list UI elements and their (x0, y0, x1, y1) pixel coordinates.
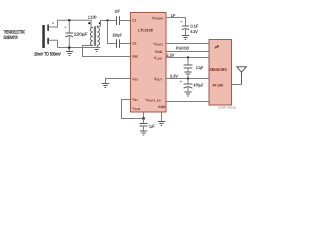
svg-text:VOUT2: VOUT2 (153, 42, 163, 47)
svg-text:1F: 1F (171, 14, 177, 18)
svg-text:LTC3108: LTC3108 (138, 28, 153, 32)
transformer phasing dots (88, 22, 90, 24)
svg-text:PGOOD: PGOOD (176, 45, 189, 50)
wire secondary top rail (101, 21, 117, 27)
svg-text:SW: SW (132, 55, 138, 59)
wire VS1 to VAUX node (122, 100, 144, 119)
op IC U1 LTC3108 (131, 13, 167, 113)
svg-text:C2: C2 (132, 42, 136, 46)
svg-text:220µF: 220µF (74, 31, 88, 36)
wire VSTORE (166, 17, 186, 19)
ground at 470uF (184, 92, 191, 96)
svg-text:1:100: 1:100 (88, 14, 97, 19)
wire VOUT2_EN to uP (166, 101, 209, 103)
svg-text:330pF: 330pF (113, 33, 123, 38)
antenna (237, 67, 246, 85)
node junction 3.3V (187, 77, 189, 79)
svg-text:RF LINK: RF LINK (213, 83, 224, 87)
ground at 1uF (140, 131, 147, 135)
wire VLDO 2.2V to uP (166, 57, 209, 59)
svg-text:VOUT2_EN: VOUT2_EN (146, 98, 161, 103)
node junction VAUX (142, 117, 145, 120)
svg-text:1µF: 1µF (149, 123, 155, 128)
capacitor 0.1F storage (180, 18, 199, 36)
wire RF to antenna (232, 84, 242, 86)
svg-text:470µF: 470µF (194, 83, 204, 88)
node junction 2.2V (187, 56, 189, 58)
wire GND pin to ground (161, 112, 163, 122)
svg-text:VAUX: VAUX (132, 106, 140, 111)
ground under transformer (95, 50, 99, 52)
svg-text:+: + (52, 21, 55, 26)
svg-text:1nF: 1nF (115, 9, 121, 14)
svg-text:6.3V: 6.3V (191, 29, 198, 34)
wire primary bottom to SW pin (83, 46, 131, 57)
wire VOUT2 to uP (166, 43, 209, 45)
capacitor 2.2uF (184, 58, 204, 73)
svg-text:VLDO: VLDO (154, 56, 163, 61)
svg-text:3.3V: 3.3V (170, 73, 179, 78)
ground at GND pin (158, 122, 165, 126)
capacitor 1uF (140, 119, 155, 132)
wire PGD to uP (166, 51, 209, 53)
block uP (209, 40, 232, 106)
svg-text:VSTORE: VSTORE (152, 16, 164, 21)
svg-text:C1: C1 (132, 19, 136, 23)
node junction on top rail (106, 19, 108, 21)
svg-text:2.2µF: 2.2µF (196, 65, 204, 70)
svg-text:2.2V: 2.2V (166, 52, 174, 57)
svg-text:VS1: VS1 (132, 97, 138, 102)
ground at 0.1F (182, 36, 189, 40)
svg-text:20mV TO 500mV: 20mV TO 500mV (34, 52, 61, 57)
svg-text:VOUT: VOUT (154, 77, 162, 82)
capacitor C 220uF (64, 19, 88, 48)
thermoelectric generator TEG (42, 21, 54, 48)
capacitor 1nF (115, 9, 131, 26)
capacitor 470uF (180, 79, 204, 93)
svg-text:µP: µP (215, 45, 220, 49)
svg-text:GND: GND (158, 105, 166, 109)
wire VOUT 3.3V to uP (166, 78, 209, 80)
wire ground rail (58, 47, 101, 49)
svg-text:PGD: PGD (155, 50, 163, 54)
wire TEG bottom (49, 40, 58, 47)
wire VAUX pin (143, 112, 145, 119)
wire TEG top to transformer (49, 20, 93, 27)
ground at 2.2uF (184, 72, 191, 76)
svg-text:3108 TA01b: 3108 TA01b (218, 105, 236, 109)
transformer T1 1:100 (90, 26, 100, 47)
node label THERMOELECTRIC GENERATOR (4, 30, 26, 40)
ground at VS2 (102, 84, 110, 88)
ground at 220uF (66, 46, 73, 55)
svg-text:SENSORS: SENSORS (209, 67, 227, 72)
wire branch to C2 (108, 21, 117, 44)
wire VS2 to ground (106, 79, 131, 84)
svg-text:0.1F: 0.1F (191, 23, 199, 28)
svg-text:GENERATOR: GENERATOR (4, 35, 18, 40)
capacitor 330pF (113, 33, 131, 48)
svg-text:VS2: VS2 (132, 77, 138, 82)
